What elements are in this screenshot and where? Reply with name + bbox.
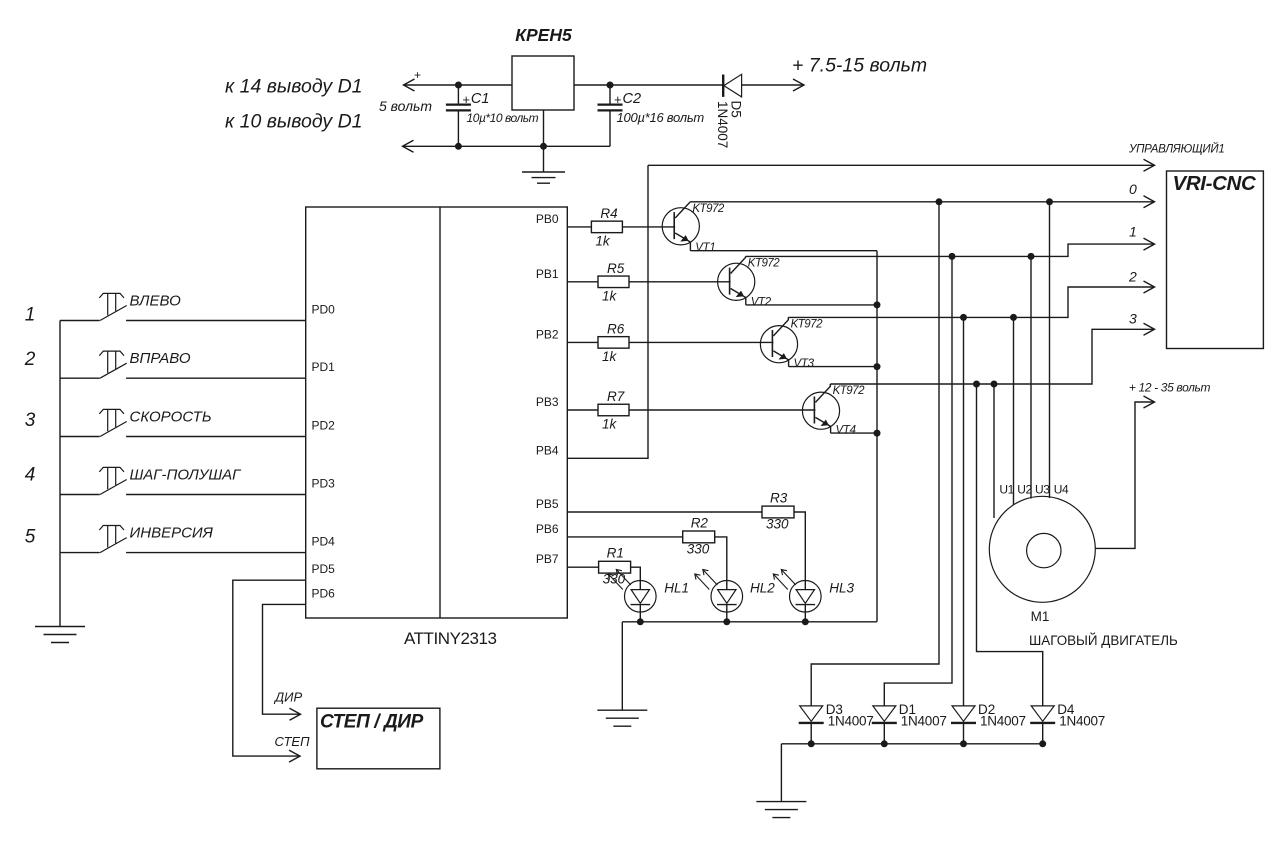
junction dot C1 bottom [455, 143, 462, 150]
microcontroller internal divider [439, 207, 441, 618]
resistor R1 [599, 561, 631, 573]
left bus vertical (buttons common) [59, 321, 61, 627]
wire button to pin (right segment) [126, 320, 306, 322]
svg-text:U2: U2 [1017, 483, 1032, 497]
svg-text:к 14 выводу D1: к 14 выводу D1 [225, 76, 363, 98]
collector wire VT1 to VRI-CNC 0 [690, 201, 1154, 203]
svg-text:СКОРОСТЬ: СКОРОСТЬ [130, 409, 212, 426]
svg-text:C1: C1 [471, 91, 490, 107]
svg-text:1k: 1k [595, 233, 611, 248]
svg-text:ИНВЕРСИЯ: ИНВЕРСИЯ [130, 525, 214, 542]
capacitor C2 [598, 103, 623, 105]
push-button ИНВЕРСИЯ [99, 526, 124, 531]
wire PB3 to R7 [567, 409, 598, 411]
wire R5 to transistor base [629, 281, 731, 283]
push-button СКОРОСТЬ [99, 409, 124, 414]
svg-text:1k: 1k [602, 349, 618, 364]
wire R7 to transistor base [629, 409, 815, 411]
wire bus to button ШАГ-ПОЛУШАГ [60, 494, 100, 496]
svg-text:PD4: PD4 [312, 535, 336, 549]
wire D2 to rail [963, 723, 965, 744]
wire VT2 collector to D1 (vertical x952) [884, 256, 952, 706]
junction dot C1 top [455, 82, 462, 89]
wire bus to button ВЛЕВО [60, 320, 100, 322]
junction dot emitter VT2 [874, 301, 881, 308]
stepper motor M1 outer body [989, 496, 1095, 602]
svg-text:ВЛЕВО: ВЛЕВО [130, 293, 182, 310]
emitter wire VT4 [831, 432, 877, 434]
diode D1 [873, 706, 896, 721]
svg-text:PB2: PB2 [536, 327, 559, 341]
wire R3 to HL3 [794, 512, 805, 590]
LED HL3 [790, 581, 822, 613]
svg-text:VT3: VT3 [794, 358, 815, 370]
svg-text:1N4007: 1N4007 [980, 714, 1026, 729]
junction dot VT2/U3 line [1028, 253, 1035, 260]
svg-text:PD5: PD5 [312, 562, 336, 576]
diode return rail (bottom) [781, 743, 1045, 745]
microcontroller U1 ATTINY2313 body [306, 207, 568, 618]
svg-text:M1: M1 [1031, 609, 1050, 624]
svg-text:2: 2 [1128, 268, 1137, 284]
svg-text:KT972: KT972 [791, 319, 823, 331]
arrow 2 [1144, 281, 1155, 293]
collector wire VT3 to VRI-CNC 2 [788, 287, 1154, 317]
wire bus to button ВПРАВО [60, 377, 100, 379]
ground symbol (diode rail) [756, 801, 806, 803]
svg-text:HL2: HL2 [750, 581, 775, 596]
arrow 1 [1144, 238, 1155, 250]
svg-text:U4: U4 [1054, 483, 1069, 497]
svg-text:100µ*16 вольт: 100µ*16 вольт [617, 110, 705, 125]
wire VT4 collector to D4 (vertical x976.5) [977, 384, 1043, 706]
svg-text:C2: C2 [623, 91, 642, 107]
wire VT4 to motor U1 [993, 384, 995, 518]
svg-text:U3: U3 [1035, 483, 1050, 497]
wire PD5 to STEP arrow [233, 580, 306, 756]
svg-text:+: + [614, 92, 622, 107]
svg-text:1k: 1k [602, 288, 618, 303]
arrow УПРАВЛЯЮЩИЙ1 [1144, 159, 1155, 171]
wire control to VRI-CNC (УПРАВЛЯЮЩИЙ1) [648, 164, 1155, 166]
junction dot HL3 [802, 618, 809, 625]
svg-text:1N4007: 1N4007 [901, 714, 947, 729]
wire button to pin (right segment) [126, 377, 306, 379]
junction dot emitter VT3 [874, 363, 881, 370]
wire D4 to rail [1042, 723, 1044, 744]
wire R1 to HL1 [631, 567, 641, 589]
junction dot D4 rail [1039, 740, 1046, 747]
svg-text:330: 330 [766, 517, 789, 532]
svg-text:PD0: PD0 [312, 303, 336, 317]
svg-text:3: 3 [1129, 311, 1137, 327]
junction dot D1 rail [881, 740, 888, 747]
power rail +5V to IC (top wire) [404, 84, 513, 86]
junction dot HL2 [723, 618, 730, 625]
svg-text:VT4: VT4 [836, 425, 856, 437]
svg-text:10µ*10 вольт: 10µ*10 вольт [467, 111, 539, 125]
svg-text:ШАГОВЫЙ ДВИГАТЕЛЬ: ШАГОВЫЙ ДВИГАТЕЛЬ [1029, 633, 1178, 648]
junction dot VT2/D1 line [949, 253, 956, 260]
svg-text:U1: U1 [999, 483, 1014, 497]
junction dot D2 rail [960, 740, 967, 747]
wire D3 to rail [810, 723, 812, 744]
ground symbol (LED rail) [597, 709, 647, 711]
transistor VT1 KT972 [662, 208, 699, 245]
push-button ВЛЕВО [99, 293, 124, 298]
svg-text:R6: R6 [607, 321, 625, 336]
junction dot VT3/U2 line [1010, 314, 1017, 321]
wire button to pin (right segment) [126, 436, 306, 438]
resistor R4 [591, 221, 622, 233]
arrow node +7.5-15 вольт [793, 79, 804, 91]
arrow DIR [290, 708, 301, 720]
junction dot C2 top [607, 82, 614, 89]
wire R2 to HL2 [715, 537, 727, 590]
svg-text:KT972: KT972 [692, 203, 724, 215]
svg-text:PB0: PB0 [536, 212, 559, 226]
svg-text:PD1: PD1 [312, 360, 336, 374]
svg-text:ДИР: ДИР [273, 690, 302, 705]
svg-text:к 10 выводу D1: к 10 выводу D1 [225, 111, 363, 133]
capacitor C1 top wire [457, 85, 459, 105]
junction dot VT4/U1 line [991, 381, 998, 388]
svg-text:5: 5 [25, 526, 36, 547]
wire rail to ground (left drop) [621, 622, 623, 710]
svg-text:PD2: PD2 [312, 419, 336, 433]
resistor R6 [598, 337, 629, 349]
arrow 0 [1144, 196, 1155, 208]
wire regulator output to D5 [574, 84, 723, 86]
svg-text:КРЕН5: КРЕН5 [515, 25, 572, 45]
wire PB2 to R6 [567, 341, 598, 343]
svg-text:ШАГ-ПОЛУШАГ: ШАГ-ПОЛУШАГ [130, 467, 243, 484]
svg-text:+: + [414, 68, 421, 82]
svg-text:R4: R4 [600, 206, 617, 221]
VRI-CNC box [1167, 171, 1264, 349]
wire VT2 to motor U3 [1030, 256, 1032, 498]
svg-text:+ 7.5-15 вольт: + 7.5-15 вольт [792, 55, 927, 77]
capacitor C1 bottom wire [457, 110, 459, 146]
arrow ground return to supply [403, 140, 414, 152]
junction dot VT1/D3 line [936, 198, 943, 205]
wire HL1 cathode to rail [639, 605, 641, 622]
junction dot VT3/D2 line [960, 314, 967, 321]
resistor R5 [598, 276, 629, 288]
regulator ground stem [543, 110, 545, 172]
junction dot VT4/D4 line [973, 381, 980, 388]
svg-text:VRI-CNC: VRI-CNC [1173, 172, 1258, 195]
svg-text:HL1: HL1 [664, 581, 689, 596]
svg-text:ВПРАВО: ВПРАВО [130, 350, 191, 367]
collector wire VT2 to VRI-CNC 1 [746, 244, 1155, 256]
emitter wire VT3 [789, 366, 877, 368]
svg-text:PB7: PB7 [536, 552, 559, 566]
svg-text:330: 330 [687, 541, 710, 556]
svg-text:R3: R3 [770, 491, 788, 506]
svg-text:PB3: PB3 [536, 395, 559, 409]
voltage regulator U5 body [512, 56, 574, 110]
push-button ШАГ-ПОЛУШАГ [99, 467, 124, 472]
svg-text:R1: R1 [607, 546, 624, 561]
svg-text:3: 3 [25, 410, 36, 431]
svg-text:2: 2 [24, 349, 36, 370]
svg-text:PB1: PB1 [536, 267, 559, 281]
resistor R3 [762, 506, 794, 518]
junction dot VT1/U4 line [1046, 198, 1053, 205]
arrow to 5V supply output [404, 79, 415, 91]
svg-text:УПРАВЛЯЮЩИЙ1: УПРАВЛЯЮЩИЙ1 [1128, 143, 1225, 156]
svg-text:1N4007: 1N4007 [1059, 714, 1105, 729]
wire PB4 to control line [567, 165, 648, 458]
wire button to pin (right segment) [126, 552, 306, 554]
svg-text:1N4007: 1N4007 [828, 714, 874, 729]
box STEP/DIR interface [317, 708, 440, 769]
capacitor C2 bottom wire [609, 110, 611, 146]
wire PB7 to R1 [567, 566, 598, 568]
svg-text:+: + [462, 92, 470, 107]
svg-text:R7: R7 [607, 389, 625, 404]
junction dot D3 rail [808, 740, 815, 747]
wire PB5 to R3 [567, 511, 762, 513]
diode D5 cathode bar [722, 75, 724, 97]
junction dot regulator ground [540, 143, 547, 150]
wire button to pin (right segment) [126, 494, 306, 496]
wire bus to button ИНВЕРСИЯ [60, 552, 100, 554]
wire motor to +12-35V [1095, 402, 1154, 548]
transistor VT2 KT972 [718, 263, 755, 300]
svg-text:KT972: KT972 [748, 258, 780, 270]
arrow STEP [289, 750, 300, 762]
ground return rail (bottom of regulator) [403, 145, 611, 147]
svg-text:1: 1 [1129, 223, 1137, 239]
svg-text:5 вольт: 5 вольт [379, 98, 432, 114]
wire PB1 to R5 [567, 281, 598, 283]
wire VT3 to motor U2 [1013, 317, 1015, 504]
wire R4 to transistor base [622, 226, 675, 228]
svg-text:+ 12 - 35 вольт: + 12 - 35 вольт [1129, 381, 1211, 395]
svg-text:4: 4 [25, 465, 36, 486]
ground symbol (buttons common) [35, 626, 85, 628]
emitter wire VT1 [690, 250, 877, 252]
junction dot emitter VT4 [874, 430, 881, 437]
wire HL2 cathode to rail [726, 605, 728, 622]
svg-text:VT2: VT2 [751, 296, 772, 308]
wire bus to button СКОРОСТЬ [60, 436, 100, 438]
collector wire VT4 to VRI-CNC 3 [830, 329, 1154, 384]
wire R6 to transistor base [629, 341, 773, 343]
diode D5 triangle [724, 74, 742, 97]
wire VT1 to motor U4 [1049, 202, 1051, 498]
push-button ВПРАВО [99, 351, 124, 356]
transistor VT3 KT972 [760, 326, 797, 363]
wire PB0 to R4 [567, 226, 591, 228]
diode D3 [800, 706, 823, 721]
svg-text:ATTINY2313: ATTINY2313 [404, 629, 497, 648]
wire D5 to +7.5-15V arrow [742, 84, 804, 86]
svg-text:PB5: PB5 [536, 497, 559, 511]
resistor R2 [683, 531, 715, 543]
svg-text:1N4007: 1N4007 [715, 101, 730, 148]
wire HL3 cathode to rail [804, 605, 806, 622]
capacitor C2 top wire [609, 85, 611, 105]
wire PD6 to DIR arrow [263, 604, 306, 714]
svg-text:330: 330 [603, 572, 626, 587]
svg-text:PD3: PD3 [312, 477, 336, 491]
svg-text:1k: 1k [602, 417, 618, 432]
svg-text:KT972: KT972 [833, 385, 865, 397]
wire PB6 to R2 [567, 536, 682, 538]
svg-text:VT1: VT1 [695, 242, 715, 254]
svg-text:PB6: PB6 [536, 522, 559, 536]
emitter bus vertical (VT1-VT4) [876, 251, 878, 622]
resistor R7 [598, 404, 629, 416]
transistor VT4 KT972 [802, 392, 839, 429]
wire VT3 collector to D2 (vertical x963.5) [963, 317, 965, 706]
junction dot HL1 [637, 618, 644, 625]
stepper motor M1 shaft [1027, 533, 1061, 567]
wire D1 to rail [883, 723, 885, 744]
svg-text:1: 1 [25, 305, 36, 326]
ground symbol (regulator) [522, 171, 565, 173]
svg-text:PD6: PD6 [312, 586, 336, 600]
LED cathode rail [622, 621, 877, 623]
svg-text:HL3: HL3 [829, 581, 854, 596]
svg-text:СТЕП / ДИР: СТЕП / ДИР [320, 712, 424, 733]
capacitor C1 [446, 103, 471, 105]
svg-text:СТЕП: СТЕП [275, 734, 311, 749]
wire VT1 collector to D3 (vertical x939) [811, 202, 939, 706]
svg-text:R5: R5 [607, 261, 625, 276]
emitter wire VT2 [746, 304, 877, 306]
svg-text:R2: R2 [691, 515, 709, 530]
diode D4 [1031, 706, 1054, 721]
LED HL2 [711, 581, 743, 613]
LED HL1 [625, 581, 657, 613]
diode D2 [952, 706, 975, 721]
arrow 3 [1144, 323, 1155, 335]
svg-text:PB4: PB4 [536, 443, 559, 457]
arrow +12-35V [1144, 396, 1155, 408]
svg-text:0: 0 [1129, 181, 1137, 197]
wire rail to ground drop [780, 744, 782, 802]
